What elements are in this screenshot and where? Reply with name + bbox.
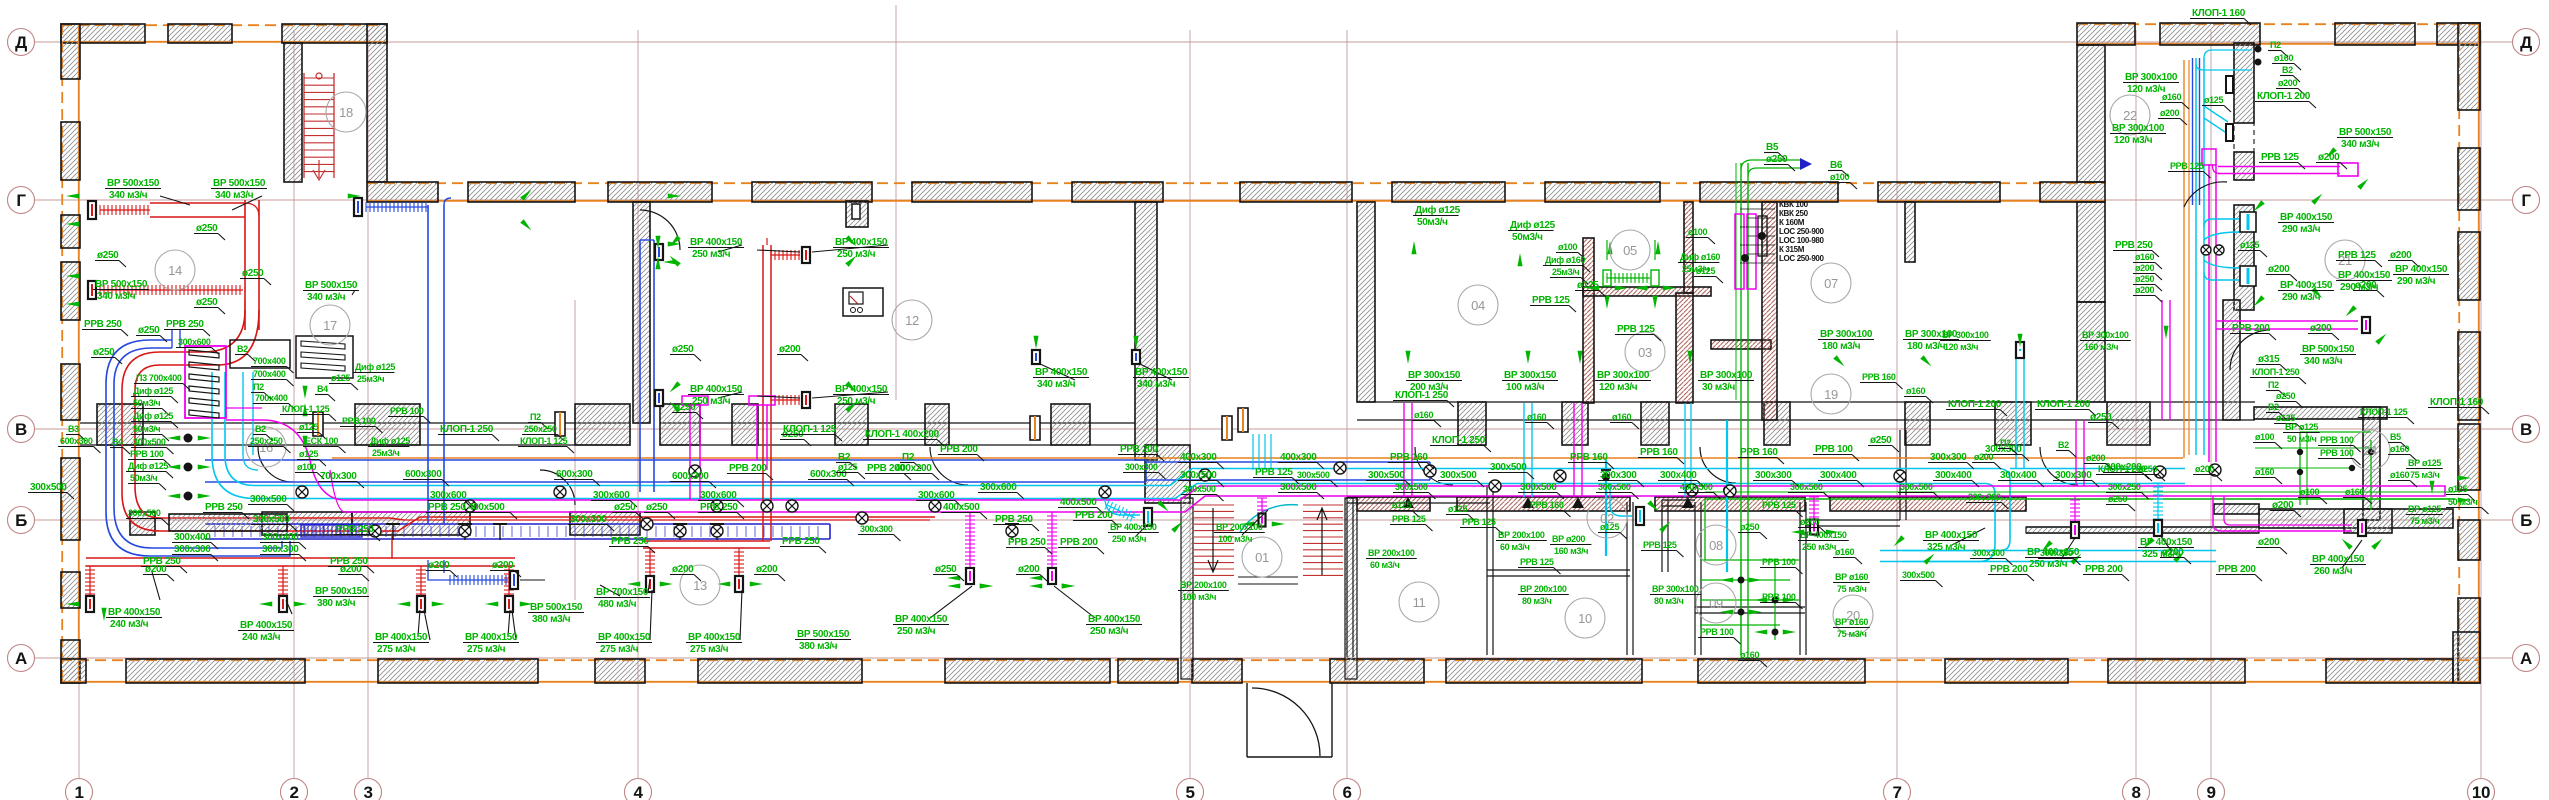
svg-text:400x300: 400x300 xyxy=(1280,452,1317,463)
svg-text:РРВ 100: РРВ 100 xyxy=(1762,557,1796,567)
svg-text:РРВ 125: РРВ 125 xyxy=(2261,152,2299,163)
svg-text:25м3/ч: 25м3/ч xyxy=(1552,267,1579,277)
svg-text:10: 10 xyxy=(1578,611,1592,626)
svg-text:ВР 300x100: ВР 300x100 xyxy=(1597,370,1650,381)
svg-text:LOC 250-900: LOC 250-900 xyxy=(1779,227,1825,236)
svg-text:П2: П2 xyxy=(530,412,541,422)
svg-text:12: 12 xyxy=(905,313,919,328)
svg-text:ø200: ø200 xyxy=(1018,564,1040,575)
svg-text:300x300: 300x300 xyxy=(2055,470,2092,481)
svg-text:ВР 400x150: ВР 400x150 xyxy=(598,632,651,643)
svg-text:ВР 200x100: ВР 200x100 xyxy=(1520,584,1567,594)
svg-text:КЛОП-1 200: КЛОП-1 200 xyxy=(1948,399,2002,410)
svg-text:75 м3/ч: 75 м3/ч xyxy=(1837,584,1867,594)
svg-text:80 м3/ч: 80 м3/ч xyxy=(1654,596,1684,606)
svg-text:ø200: ø200 xyxy=(756,564,778,575)
svg-text:КЛОП-1 125: КЛОП-1 125 xyxy=(783,424,837,435)
svg-text:50 м3/ч: 50 м3/ч xyxy=(2448,497,2478,507)
svg-text:РРВ 200: РРВ 200 xyxy=(2218,564,2256,575)
svg-text:22: 22 xyxy=(2123,108,2137,123)
svg-text:340 м3/ч: 340 м3/ч xyxy=(215,190,254,201)
svg-text:80 м3/ч: 80 м3/ч xyxy=(1522,596,1552,606)
svg-text:ø160: ø160 xyxy=(1906,386,1925,396)
svg-text:50м3/ч: 50м3/ч xyxy=(133,398,160,408)
svg-text:04: 04 xyxy=(1471,298,1485,313)
svg-text:LOC 250-900: LOC 250-900 xyxy=(1779,254,1825,263)
svg-text:300x300: 300x300 xyxy=(1930,452,1967,463)
svg-text:ø100: ø100 xyxy=(1830,172,1849,182)
svg-text:ВР ø125: ВР ø125 xyxy=(2408,458,2441,468)
svg-text:300x600: 300x600 xyxy=(980,482,1017,493)
svg-text:250x250: 250x250 xyxy=(524,424,557,434)
svg-text:ВР 700x150: ВР 700x150 xyxy=(596,587,649,598)
svg-text:340 м3/ч: 340 м3/ч xyxy=(2341,139,2380,150)
svg-text:РРВ 200: РРВ 200 xyxy=(1120,444,1158,455)
svg-text:19: 19 xyxy=(1824,387,1838,402)
svg-text:25м3/ч: 25м3/ч xyxy=(357,374,384,384)
svg-text:300x500: 300x500 xyxy=(1180,470,1217,481)
svg-text:РРВ 160: РРВ 160 xyxy=(1530,500,1564,510)
svg-text:ø125: ø125 xyxy=(2240,240,2259,250)
svg-text:400x200: 400x200 xyxy=(895,463,932,474)
svg-text:РРВ 160: РРВ 160 xyxy=(1862,372,1896,382)
svg-text:Д: Д xyxy=(15,33,27,52)
svg-text:ВР 500x150: ВР 500x150 xyxy=(315,586,368,597)
svg-text:ø250: ø250 xyxy=(138,325,160,336)
svg-text:300x400: 300x400 xyxy=(174,532,211,543)
svg-text:РРВ 100: РРВ 100 xyxy=(342,416,376,426)
svg-text:300x500: 300x500 xyxy=(1183,484,1216,494)
svg-text:260 м3/ч: 260 м3/ч xyxy=(2314,566,2353,577)
svg-text:В4: В4 xyxy=(112,437,123,447)
svg-text:РРВ 125: РРВ 125 xyxy=(1520,557,1554,567)
svg-text:17: 17 xyxy=(323,318,337,333)
svg-text:РРВ 250: РРВ 250 xyxy=(84,319,122,330)
svg-text:Диф ø125: Диф ø125 xyxy=(1415,204,1461,216)
svg-text:КЛОП-1 125: КЛОП-1 125 xyxy=(520,436,568,446)
svg-text:ø250: ø250 xyxy=(97,250,119,261)
svg-text:ВР 500x150: ВР 500x150 xyxy=(95,279,148,290)
svg-text:РРВ 125: РРВ 125 xyxy=(1532,295,1570,306)
svg-text:ВР 300x100: ВР 300x100 xyxy=(1942,330,1989,340)
svg-text:ø200: ø200 xyxy=(779,344,801,355)
svg-text:ВР 200x100: ВР 200x100 xyxy=(1180,580,1227,590)
svg-text:ø100: ø100 xyxy=(1688,227,1707,237)
svg-text:ø160: ø160 xyxy=(1740,650,1759,660)
svg-text:КЛОП-1 400x200: КЛОП-1 400x200 xyxy=(865,429,940,440)
svg-text:ø160: ø160 xyxy=(2390,470,2409,480)
svg-text:РРВ 125: РРВ 125 xyxy=(1462,517,1496,527)
svg-text:РРВ 200: РРВ 200 xyxy=(2085,564,2123,575)
svg-text:300x500: 300x500 xyxy=(1368,470,1405,481)
svg-text:ø125: ø125 xyxy=(1392,500,1411,510)
svg-text:380 м3/ч: 380 м3/ч xyxy=(799,641,838,652)
svg-text:ø160: ø160 xyxy=(2135,252,2154,262)
svg-text:300x600: 300x600 xyxy=(178,337,211,347)
svg-text:50м3/ч: 50м3/ч xyxy=(133,424,160,434)
svg-text:ø250: ø250 xyxy=(242,268,264,279)
svg-text:ø250: ø250 xyxy=(614,502,636,513)
svg-text:ВР ø125: ВР ø125 xyxy=(2408,504,2441,514)
svg-text:400x500: 400x500 xyxy=(1680,482,1713,492)
svg-text:14: 14 xyxy=(168,263,182,278)
svg-text:01: 01 xyxy=(1255,550,1269,565)
svg-text:Диф ø125: Диф ø125 xyxy=(1510,219,1556,231)
svg-text:ø160: ø160 xyxy=(2162,92,2181,102)
svg-text:КЛОП-1 250: КЛОП-1 250 xyxy=(1432,435,1486,446)
svg-text:340 м3/ч: 340 м3/ч xyxy=(1137,379,1176,390)
svg-text:300x500: 300x500 xyxy=(253,514,290,525)
svg-text:В3: В3 xyxy=(68,424,79,434)
svg-text:ВР 400x150: ВР 400x150 xyxy=(1088,614,1141,625)
svg-text:Диф ø160: Диф ø160 xyxy=(1545,255,1585,265)
svg-text:300x500: 300x500 xyxy=(1280,482,1317,493)
svg-text:300x600: 300x600 xyxy=(430,490,467,501)
svg-text:РРВ 250 400x500: РРВ 250 400x500 xyxy=(428,502,505,513)
svg-text:250 м3/ч: 250 м3/ч xyxy=(897,626,936,637)
svg-text:8: 8 xyxy=(2131,783,2140,800)
svg-text:Диф ø125: Диф ø125 xyxy=(128,461,168,471)
svg-text:ВР 400x150: ВР 400x150 xyxy=(1110,522,1157,532)
svg-text:РРВ 200: РРВ 200 xyxy=(1060,537,1098,548)
svg-text:50м3/ч: 50м3/ч xyxy=(1512,232,1543,243)
svg-text:300x400: 300x400 xyxy=(1660,470,1697,481)
svg-text:275 м3/ч: 275 м3/ч xyxy=(467,644,506,655)
svg-text:РРВ 250: РРВ 250 xyxy=(1008,537,1046,548)
svg-text:ВР ø160: ВР ø160 xyxy=(1835,617,1868,627)
svg-text:РРВ 250: РРВ 250 xyxy=(700,502,738,513)
svg-text:ВР 300x100: ВР 300x100 xyxy=(2112,123,2165,134)
svg-text:300x500: 300x500 xyxy=(1520,482,1557,493)
svg-text:П3 700x400: П3 700x400 xyxy=(136,373,182,383)
svg-text:120 м3/ч: 120 м3/ч xyxy=(2127,84,2166,95)
svg-text:ø250: ø250 xyxy=(2276,391,2295,401)
svg-text:400x500: 400x500 xyxy=(943,502,980,513)
svg-text:ЕСК 100: ЕСК 100 xyxy=(305,436,338,446)
svg-text:П2: П2 xyxy=(2270,40,2281,50)
svg-text:240 м3/ч: 240 м3/ч xyxy=(110,619,149,630)
svg-text:КЛОП-1 200: КЛОП-1 200 xyxy=(2257,91,2311,102)
svg-text:325 м3/ч: 325 м3/ч xyxy=(1927,542,1966,553)
svg-text:РРВ 100: РРВ 100 xyxy=(1700,627,1734,637)
svg-text:ø100: ø100 xyxy=(297,462,316,472)
svg-text:ВР 500x150: ВР 500x150 xyxy=(213,178,266,189)
svg-text:ВР 300x150: ВР 300x150 xyxy=(1408,370,1461,381)
svg-text:250 м3/ч: 250 м3/ч xyxy=(1112,534,1146,544)
svg-text:ø160: ø160 xyxy=(1612,412,1631,422)
svg-text:ø100: ø100 xyxy=(2300,487,2319,497)
svg-text:ВР 400x150: ВР 400x150 xyxy=(688,632,741,643)
svg-text:РРВ 250: РРВ 250 xyxy=(611,536,649,547)
svg-text:300x600: 300x600 xyxy=(918,490,955,501)
svg-text:ø200: ø200 xyxy=(2160,108,2179,118)
svg-text:ø160: ø160 xyxy=(2345,487,2364,497)
svg-text:В4: В4 xyxy=(317,384,328,394)
svg-text:РРВ 100: РРВ 100 xyxy=(130,449,164,459)
svg-text:300x500: 300x500 xyxy=(250,494,287,505)
svg-text:300x300: 300x300 xyxy=(570,514,607,525)
svg-text:700x300: 700x300 xyxy=(320,471,357,482)
svg-text:300x300: 300x300 xyxy=(174,544,211,555)
svg-text:300x400: 300x400 xyxy=(1820,470,1857,481)
svg-text:300x300: 300x300 xyxy=(262,544,299,555)
svg-text:ВР 500x150: ВР 500x150 xyxy=(797,629,850,640)
svg-text:120 м3/ч: 120 м3/ч xyxy=(1599,382,1638,393)
svg-text:300x300: 300x300 xyxy=(1755,470,1792,481)
svg-text:ВР 300x100: ВР 300x100 xyxy=(1700,370,1753,381)
svg-text:РРВ 250: РРВ 250 xyxy=(2115,240,2153,251)
svg-text:275 м3/ч: 275 м3/ч xyxy=(690,644,729,655)
svg-text:09: 09 xyxy=(1709,596,1723,611)
svg-text:400x500: 400x500 xyxy=(1060,497,1097,508)
svg-text:ВР 400x150: ВР 400x150 xyxy=(690,237,743,248)
svg-text:400x300: 400x300 xyxy=(1180,452,1217,463)
svg-text:РРВ 250: РРВ 250 xyxy=(995,514,1033,525)
svg-text:ø200: ø200 xyxy=(2268,264,2290,275)
svg-text:300x300: 300x300 xyxy=(860,524,893,534)
svg-text:160 м3/ч: 160 м3/ч xyxy=(2084,342,2118,352)
svg-text:Диф ø125: Диф ø125 xyxy=(133,411,173,421)
svg-text:Диф ø125: Диф ø125 xyxy=(133,386,173,396)
svg-text:08: 08 xyxy=(1709,538,1723,553)
svg-text:ø250: ø250 xyxy=(2090,412,2112,423)
svg-text:ø200: ø200 xyxy=(2258,537,2280,548)
svg-text:300x500: 300x500 xyxy=(133,437,166,447)
svg-text:100 м3/ч: 100 м3/ч xyxy=(1218,534,1252,544)
svg-text:РРВ 160: РРВ 160 xyxy=(1740,447,1778,458)
svg-text:24: 24 xyxy=(2363,443,2377,458)
svg-text:ø100: ø100 xyxy=(2255,432,2274,442)
svg-text:75 м3/ч: 75 м3/ч xyxy=(1837,629,1867,639)
svg-text:РРВ 200: РРВ 200 xyxy=(1990,564,2028,575)
svg-text:А: А xyxy=(15,649,27,668)
svg-text:ø125: ø125 xyxy=(1696,266,1715,276)
svg-text:3: 3 xyxy=(363,783,372,800)
svg-text:ВР 300x100: ВР 300x100 xyxy=(1652,584,1699,594)
svg-text:ø250: ø250 xyxy=(196,223,218,234)
svg-text:ø250: ø250 xyxy=(2135,274,2154,284)
svg-text:РРВ 100: РРВ 100 xyxy=(2320,435,2354,445)
svg-text:325 м3/ч: 325 м3/ч xyxy=(2142,549,2181,560)
svg-text:КЛОП-1 250: КЛОП-1 250 xyxy=(2252,367,2300,377)
svg-text:18: 18 xyxy=(339,105,353,120)
svg-text:КЛОП-1 250: КЛОП-1 250 xyxy=(440,424,494,435)
svg-text:ø160: ø160 xyxy=(1835,547,1854,557)
svg-text:ø200: ø200 xyxy=(2278,78,2297,88)
svg-text:В2: В2 xyxy=(2058,440,2069,450)
svg-text:РРВ 125: РРВ 125 xyxy=(1392,514,1426,524)
svg-text:ВР 400x150: ВР 400x150 xyxy=(690,384,743,395)
svg-text:РРВ 100: РРВ 100 xyxy=(2320,448,2354,458)
svg-text:05: 05 xyxy=(1623,243,1637,258)
svg-text:700x400: 700x400 xyxy=(253,369,286,379)
svg-text:07: 07 xyxy=(1824,276,1838,291)
svg-text:340 м3/ч: 340 м3/ч xyxy=(97,291,136,302)
svg-text:ВР 400x150: ВР 400x150 xyxy=(2395,264,2448,275)
svg-text:ВР 400x150: ВР 400x150 xyxy=(1135,367,1188,378)
svg-text:ø160: ø160 xyxy=(2390,444,2409,454)
svg-text:ø200: ø200 xyxy=(1800,517,1819,527)
svg-text:600x300: 600x300 xyxy=(556,469,593,480)
svg-text:300x500: 300x500 xyxy=(1900,482,1933,492)
svg-text:ВР 400x150: ВР 400x150 xyxy=(2280,212,2333,223)
svg-text:РРВ 160: РРВ 160 xyxy=(1640,447,1678,458)
svg-text:340 м3/ч: 340 м3/ч xyxy=(307,292,346,303)
svg-text:ø160: ø160 xyxy=(1527,412,1546,422)
svg-text:ø200: ø200 xyxy=(2135,285,2154,295)
svg-text:ø200: ø200 xyxy=(340,564,362,575)
svg-text:ВР 400x150: ВР 400x150 xyxy=(835,237,888,248)
svg-text:ВР 400x150: ВР 400x150 xyxy=(240,620,293,631)
svg-text:ВР 500x150: ВР 500x150 xyxy=(2302,344,2355,355)
svg-text:РРВ 100: РРВ 100 xyxy=(390,406,424,416)
svg-text:5: 5 xyxy=(1185,783,1194,800)
svg-text:50м3/ч: 50м3/ч xyxy=(1417,217,1448,228)
svg-text:300x400: 300x400 xyxy=(2000,470,2037,481)
svg-text:КЛОП-1 160: КЛОП-1 160 xyxy=(2192,8,2246,19)
svg-text:300x500: 300x500 xyxy=(1490,462,1527,473)
svg-text:ø250: ø250 xyxy=(1740,522,1759,532)
svg-text:КЛОП-1 200: КЛОП-1 200 xyxy=(2037,399,2091,410)
svg-text:480 м3/ч: 480 м3/ч xyxy=(598,599,637,610)
svg-text:Б: Б xyxy=(15,511,27,530)
svg-text:ø200: ø200 xyxy=(2272,500,2294,511)
svg-text:КВК 100: КВК 100 xyxy=(1779,200,1809,209)
svg-text:340 м3/ч: 340 м3/ч xyxy=(2304,356,2343,367)
svg-text:В2: В2 xyxy=(2268,402,2279,412)
svg-text:100 м3/ч: 100 м3/ч xyxy=(1182,592,1216,602)
svg-text:300x300: 300x300 xyxy=(1125,462,1158,472)
svg-text:В2: В2 xyxy=(255,424,266,434)
svg-text:10: 10 xyxy=(2472,783,2490,800)
svg-text:РРВ 250: РРВ 250 xyxy=(166,319,204,330)
svg-text:700x400: 700x400 xyxy=(255,393,288,403)
svg-text:ВР 200x100: ВР 200x100 xyxy=(1216,522,1263,532)
svg-text:290 м3/ч: 290 м3/ч xyxy=(2340,282,2379,293)
svg-text:160 м3/ч: 160 м3/ч xyxy=(1554,546,1588,556)
svg-text:6: 6 xyxy=(1342,783,1351,800)
svg-text:РРВ 100: РРВ 100 xyxy=(1815,444,1853,455)
svg-text:340 м3/ч: 340 м3/ч xyxy=(109,190,148,201)
svg-text:ВР 400x150: ВР 400x150 xyxy=(2140,537,2193,548)
svg-text:РРВ 250: РРВ 250 xyxy=(336,524,374,535)
svg-text:ВР 300x100: ВР 300x100 xyxy=(2082,330,2129,340)
svg-text:200 м3/ч: 200 м3/ч xyxy=(1410,382,1449,393)
svg-text:ВР 200x100: ВР 200x100 xyxy=(1498,530,1545,540)
svg-text:120 м3/ч: 120 м3/ч xyxy=(2114,135,2153,146)
svg-text:ВР 500x150: ВР 500x150 xyxy=(2339,127,2392,138)
svg-text:РРВ 200: РРВ 200 xyxy=(729,463,767,474)
svg-text:1: 1 xyxy=(74,783,83,800)
svg-text:РРВ 100: РРВ 100 xyxy=(1762,592,1796,602)
svg-text:300x500: 300x500 xyxy=(1395,482,1428,492)
svg-text:ø250: ø250 xyxy=(646,502,668,513)
svg-text:4: 4 xyxy=(633,783,643,800)
svg-text:ВР ø200: ВР ø200 xyxy=(1552,534,1585,544)
svg-text:ø125: ø125 xyxy=(1448,504,1467,514)
svg-text:ВР 300x150: ВР 300x150 xyxy=(1504,370,1557,381)
svg-text:75 м3/ч: 75 м3/ч xyxy=(2410,470,2440,480)
svg-text:РРВ 125: РРВ 125 xyxy=(2338,250,2376,261)
svg-text:ø200: ø200 xyxy=(492,560,514,571)
svg-text:ø200: ø200 xyxy=(428,560,450,571)
svg-text:ВР 500x150: ВР 500x150 xyxy=(107,178,160,189)
svg-text:380 м3/ч: 380 м3/ч xyxy=(317,598,356,609)
svg-text:ø125: ø125 xyxy=(331,373,350,383)
svg-text:В2: В2 xyxy=(237,344,248,354)
svg-text:ø160: ø160 xyxy=(2255,467,2274,477)
svg-text:300x600: 300x600 xyxy=(593,490,630,501)
svg-text:250 м3/ч: 250 м3/ч xyxy=(2029,559,2068,570)
svg-text:КЛОП-1 160: КЛОП-1 160 xyxy=(2430,397,2484,408)
svg-text:11: 11 xyxy=(1413,595,1426,610)
svg-text:В6: В6 xyxy=(1830,160,1843,171)
svg-text:ø125: ø125 xyxy=(299,449,318,459)
svg-text:РРВ 250: РРВ 250 xyxy=(205,502,243,513)
svg-text:300x400: 300x400 xyxy=(1935,470,1972,481)
svg-text:ВР 400x150: ВР 400x150 xyxy=(2338,270,2391,281)
svg-text:250 м3/ч: 250 м3/ч xyxy=(1802,542,1836,552)
svg-text:ø125: ø125 xyxy=(2448,484,2467,494)
svg-text:РРВ 200: РРВ 200 xyxy=(940,444,978,455)
svg-text:ø200: ø200 xyxy=(1974,452,1993,462)
svg-text:ø160: ø160 xyxy=(1414,410,1433,420)
svg-text:КЛОП-1 125: КЛОП-1 125 xyxy=(282,404,330,414)
svg-text:250 м3/ч: 250 м3/ч xyxy=(837,396,876,407)
svg-text:100 м3/ч: 100 м3/ч xyxy=(1506,382,1545,393)
svg-text:290 м3/ч: 290 м3/ч xyxy=(2282,292,2321,303)
svg-text:300x500: 300x500 xyxy=(1790,482,1823,492)
svg-text:Диф ø125: Диф ø125 xyxy=(355,362,395,372)
svg-text:РРВ 200: РРВ 200 xyxy=(1075,510,1113,521)
svg-text:300x300: 300x300 xyxy=(2040,548,2073,558)
svg-text:К 160М: К 160М xyxy=(1779,218,1805,227)
svg-text:В: В xyxy=(2520,420,2532,439)
svg-text:250 м3/ч: 250 м3/ч xyxy=(1090,626,1129,637)
svg-text:60 м3/ч: 60 м3/ч xyxy=(1500,542,1530,552)
svg-text:К 315М: К 315М xyxy=(1779,245,1805,254)
svg-text:ø250: ø250 xyxy=(2138,464,2157,474)
svg-text:Диф ø160: Диф ø160 xyxy=(1680,252,1720,262)
svg-text:ВР 400x150: ВР 400x150 xyxy=(1035,367,1088,378)
svg-text:А: А xyxy=(2520,649,2532,668)
svg-text:ø200: ø200 xyxy=(2086,453,2105,463)
svg-text:ø250: ø250 xyxy=(672,344,694,355)
svg-text:ВР 200x100: ВР 200x100 xyxy=(1368,548,1415,558)
svg-text:50м3/ч: 50м3/ч xyxy=(130,473,157,483)
svg-text:РРВ 125: РРВ 125 xyxy=(1255,467,1293,478)
svg-text:300x300: 300x300 xyxy=(1600,470,1637,481)
svg-text:РРВ 125: РРВ 125 xyxy=(2170,161,2204,171)
svg-text:ø200: ø200 xyxy=(2310,323,2332,334)
svg-text:ø250: ø250 xyxy=(1766,154,1788,165)
svg-text:ø200: ø200 xyxy=(2195,464,2214,474)
svg-text:ВР 400x150: ВР 400x150 xyxy=(108,607,161,618)
svg-text:ø125: ø125 xyxy=(2204,95,2223,105)
svg-text:ВР 400x150: ВР 400x150 xyxy=(835,384,888,395)
svg-text:ø200: ø200 xyxy=(2318,152,2340,163)
svg-text:600x300: 600x300 xyxy=(672,471,709,482)
svg-text:ø250: ø250 xyxy=(2108,494,2127,504)
svg-text:03: 03 xyxy=(1638,345,1652,360)
svg-text:60 м3/ч: 60 м3/ч xyxy=(1370,560,1400,570)
svg-text:ВР 400x150: ВР 400x150 xyxy=(465,632,518,643)
svg-text:180 м3/ч: 180 м3/ч xyxy=(1907,341,1946,352)
svg-text:РРВ 160: РРВ 160 xyxy=(1570,452,1608,463)
svg-text:9: 9 xyxy=(2206,783,2215,800)
svg-text:П2: П2 xyxy=(2000,438,2011,448)
svg-text:120 м3/ч: 120 м3/ч xyxy=(1944,342,1978,352)
